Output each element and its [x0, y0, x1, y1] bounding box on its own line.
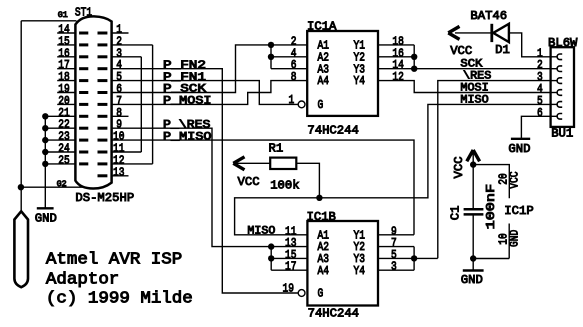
svg-text:A4: A4: [318, 264, 330, 278]
svg-text:VCC: VCC: [507, 172, 521, 189]
svg-text:G1: G1: [58, 10, 68, 20]
svg-text:MOSI: MOSI: [460, 83, 488, 95]
svg-text:VCC: VCC: [238, 175, 260, 189]
svg-text:GND: GND: [507, 230, 521, 247]
svg-text:G: G: [318, 287, 324, 301]
svg-text:25: 25: [58, 153, 70, 167]
svg-text:6: 6: [537, 106, 543, 120]
svg-text:A4: A4: [318, 74, 330, 88]
svg-text:Y4: Y4: [354, 74, 366, 88]
svg-text:IC1P: IC1P: [504, 204, 533, 218]
svg-text:VCC: VCC: [450, 44, 472, 58]
svg-text:P_MOSI: P_MOSI: [163, 96, 212, 108]
svg-text:Atmel AVR ISP: Atmel AVR ISP: [46, 251, 182, 270]
svg-text:ST1: ST1: [75, 5, 92, 19]
svg-text:17: 17: [285, 260, 297, 274]
svg-text:G: G: [318, 98, 324, 112]
svg-text:P_FN2: P_FN2: [163, 60, 206, 72]
svg-text:74HC244: 74HC244: [308, 306, 359, 320]
svg-text:(c) 1999 Milde: (c) 1999 Milde: [46, 289, 193, 308]
svg-text:P_FN1: P_FN1: [163, 72, 206, 84]
svg-text:Y4: Y4: [354, 264, 366, 278]
svg-text:GND: GND: [508, 142, 530, 156]
svg-text:Adaptor: Adaptor: [46, 271, 119, 290]
svg-text:19: 19: [283, 282, 295, 296]
svg-text:GND: GND: [35, 212, 57, 226]
svg-text:8: 8: [291, 70, 297, 84]
svg-text:SCK: SCK: [460, 59, 482, 71]
svg-text:BU1: BU1: [551, 127, 573, 141]
svg-text:BAT46: BAT46: [470, 9, 507, 23]
svg-text:3: 3: [391, 260, 397, 274]
svg-text:1: 1: [289, 93, 295, 107]
svg-text:VCC: VCC: [452, 156, 466, 178]
svg-text:74HC244: 74HC244: [307, 124, 358, 138]
svg-text:R1: R1: [269, 142, 284, 156]
svg-text:100nF: 100nF: [484, 184, 498, 230]
svg-text:P_\RES: P_\RES: [163, 119, 211, 131]
svg-text:DS-M25HP: DS-M25HP: [75, 191, 134, 205]
svg-text:100k: 100k: [270, 178, 299, 192]
svg-text:P_MISO: P_MISO: [163, 131, 212, 143]
svg-text:C1: C1: [449, 206, 463, 221]
svg-text:P_SCK: P_SCK: [163, 84, 206, 96]
svg-text:D1: D1: [495, 43, 510, 57]
svg-text:MISO: MISO: [247, 225, 275, 237]
svg-text:IC1A: IC1A: [307, 19, 337, 33]
svg-text:BL6W: BL6W: [548, 36, 578, 50]
svg-text:12: 12: [392, 70, 404, 84]
svg-text:13: 13: [113, 165, 125, 179]
svg-text:IC1B: IC1B: [307, 210, 336, 224]
svg-text:GND: GND: [461, 273, 483, 287]
